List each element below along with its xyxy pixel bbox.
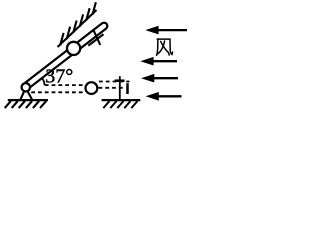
ground left — [8, 99, 48, 101]
hinge stand leg right — [28, 92, 32, 100]
ring on rod — [67, 42, 80, 55]
ground right — [102, 99, 141, 101]
angle arc — [41, 77, 44, 85]
svg-text:37°: 37° — [45, 66, 73, 88]
slot tick crossing — [94, 31, 101, 45]
lower-left dashed line (from hinge to ball) — [31, 91, 84, 93]
ball on ground — [86, 82, 98, 94]
ground right hatching — [103, 101, 137, 108]
upper-right dashed line (ball to stop) — [99, 81, 130, 83]
wind character feng — [157, 39, 173, 56]
wind arrow 2 — [140, 57, 177, 66]
inclined wall line (hatched, parallel above rod) — [58, 10, 97, 47]
hinge stand leg left — [21, 92, 25, 100]
wind arrow 1 — [145, 26, 187, 35]
T pin stem — [119, 76, 121, 100]
wall hatch ticks — [60, 2, 96, 45]
rod (capsule shaped bar at 37 deg) — [26, 23, 108, 88]
lower-right dashed line (ball to stop) — [99, 87, 125, 89]
T pin cap bar — [115, 79, 125, 82]
wind arrow 3 — [141, 74, 178, 83]
hinge circle — [22, 83, 30, 91]
upper-left dashed line (horizontal reference from angle arc to ball) — [45, 84, 85, 86]
wind arrow 4 — [146, 92, 182, 101]
right vertical stop bar — [126, 83, 129, 94]
ground left hatching — [5, 101, 47, 108]
lower slot line under rod top — [88, 34, 103, 45]
